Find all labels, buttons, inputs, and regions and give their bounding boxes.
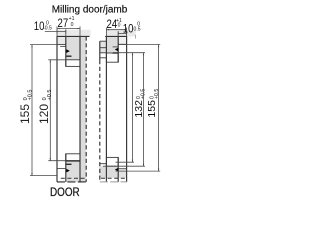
dim 120 left extension bottom [48, 160, 66, 162]
dim 27 line [57, 28, 80, 30]
jamb stop strip fill (top) [100, 41, 107, 53]
door hline at lower left [57, 168, 66, 170]
jamb bottom arrow [115, 168, 119, 172]
dim 132 line [132, 53, 134, 163]
svg-text:0: 0 [136, 96, 142, 99]
door top band (milled zone above section) [57, 30, 91, 37]
dim 120 left arrow top [50, 60, 51, 63]
dim 27 arrow left [57, 28, 60, 29]
jamb lip strip fill [118, 36, 126, 44]
auxiliary dim extension bottom (merges with jamb box bottom edge) [103, 165, 145, 167]
jamb stop hline at bottom [99, 163, 106, 165]
svg-text:DOOR: DOOR [50, 187, 80, 200]
door face hidden line (dashed) [85, 36, 87, 182]
svg-text:120: 120 [37, 104, 51, 124]
auxiliary dim arrow bottom [143, 164, 144, 167]
jamb lip inner line bottom [117, 157, 119, 182]
dim 10 right extension at pocket [117, 31, 119, 36]
dim 27 extension line left [56, 26, 58, 36]
door lip strip fill [57, 36, 66, 44]
svg-text:-0.5: -0.5 [132, 26, 141, 32]
jamb top edge [105, 35, 127, 37]
door hidden bottom edge (dashed) [61, 177, 87, 179]
jamb lip pocket bottom edge [118, 43, 126, 45]
door thick short line at bottom pocket [66, 163, 72, 165]
dim 120 left extension top [48, 59, 66, 61]
door top edge [57, 35, 90, 37]
dim 24 extension line right [126, 28, 128, 37]
jamb stop face hidden (dashed) [99, 60, 101, 182]
door left edge [56, 36, 58, 182]
dim 155 left text (rotated) [18, 90, 34, 124]
dim 27 arrow right [77, 28, 80, 29]
door bottom arrow [66, 169, 70, 173]
dim 10 right text [123, 23, 134, 36]
dim 120 left text (rotated) [37, 90, 53, 124]
jamb short line above top arrow [113, 46, 119, 48]
dim 120 left arrow bottom [50, 158, 51, 161]
dim 10 tick right [65, 30, 67, 34]
dim 10 tolerance [46, 20, 49, 26]
jamb stop hline 4 [100, 57, 107, 59]
svg-text:0: 0 [118, 22, 121, 28]
jamb right edge [126, 36, 128, 182]
svg-text:0: 0 [149, 96, 155, 99]
dim 155 right extension bottom [116, 170, 161, 172]
dim 10 extension at pocket [65, 29, 67, 36]
svg-text:155: 155 [146, 100, 158, 118]
door right strip fill [80, 36, 86, 182]
auxiliary dim line (middle right) [143, 53, 145, 167]
dim 24 extension line left [105, 28, 107, 37]
door short line above top arrow [60, 45, 66, 47]
jamb stop hline 1 [100, 40, 107, 42]
dim 27 tolerance [69, 16, 75, 22]
dim 27 text [58, 17, 69, 30]
dim 155 left extension bottom [30, 175, 57, 177]
door top milled pocket fill [66, 36, 80, 59]
svg-text:155: 155 [18, 104, 32, 124]
dim 10 tick left [56, 30, 58, 34]
door bottom break line (long dash) [57, 181, 87, 183]
jamb top milled pocket fill [106, 36, 118, 53]
svg-text:132: 132 [133, 100, 145, 118]
svg-text:-0.5: -0.5 [43, 25, 52, 31]
auxiliary dim arrow top [143, 53, 144, 56]
svg-text:0: 0 [71, 22, 74, 28]
door bottom box thick bottom edge [66, 160, 80, 162]
svg-text:27: 27 [58, 17, 69, 30]
door thick short line below top arrow [66, 55, 72, 57]
jamb bottom milled pocket fill [99, 166, 118, 178]
dim 155 left arrow top [31, 45, 32, 48]
jamb bottom break line (long dash) [100, 181, 127, 183]
dim 155 right extension top [118, 44, 160, 46]
jamb hidden bottom edge (dashed) [101, 177, 127, 179]
door top inner box (white) [66, 60, 80, 67]
dim 10 right tick right [126, 31, 128, 35]
dim 10 right tick left [117, 31, 119, 35]
dim 24 line [106, 29, 126, 31]
jamb bottom right light fill [118, 169, 126, 178]
door top arrow [66, 49, 70, 53]
dim 132 extension bottom [116, 161, 135, 163]
dim 155 right line [158, 45, 160, 172]
svg-text:Milling door/jamb: Milling door/jamb [52, 4, 128, 15]
dim 10 right line (leader extends right) [118, 32, 127, 34]
door lip inner line bottom [65, 154, 67, 182]
dim 10 right tolerance [137, 21, 140, 27]
door bottom inner box (white) [66, 154, 80, 161]
jamb pocket left line [105, 36, 107, 182]
dim 155 left extension top [30, 44, 57, 46]
dim 10 text [34, 20, 45, 33]
jamb top band right edge tick [135, 35, 137, 39]
dim 132 extension top [118, 52, 145, 54]
dim 155 left arrow bottom [31, 173, 32, 176]
dim 120 left line [49, 60, 51, 161]
dim 132 text (rotated) [133, 89, 147, 118]
dim 24 tolerance [116, 18, 122, 24]
jamb top band (milled zone above section) [106, 30, 135, 36]
jamb thick box top segment [113, 52, 119, 54]
jamb lip inner line top [117, 36, 119, 62]
door lip pocket bottom edge [57, 44, 66, 46]
dim 24 arrow left [106, 29, 109, 30]
dim 24 text [107, 18, 118, 31]
dim 132 arrow top [132, 53, 133, 56]
jamb bottom inner box (white) [106, 157, 118, 166]
dim 155 right arrow bottom [158, 169, 159, 172]
jamb stop hline 2 [100, 47, 107, 49]
dim 155 right text (rotated) [146, 89, 160, 118]
dim 27 extension line right [79, 26, 81, 36]
dim 155 left line [31, 45, 33, 176]
jamb hline at lower right [118, 168, 126, 170]
dim 10 line (leader extends left) [45, 31, 66, 33]
jamb stop hline 3 [100, 52, 107, 54]
jamb stop face solid top [99, 41, 101, 60]
svg-text:0: 0 [23, 97, 29, 100]
svg-text:0: 0 [42, 97, 48, 100]
jamb top inner box (white) [106, 53, 118, 62]
jamb top arrow [115, 48, 119, 52]
door lip inner line top [65, 36, 67, 66]
dim 24 arrow right [124, 29, 127, 30]
dim 155 right arrow top [158, 45, 159, 48]
door pocket right line [79, 36, 81, 182]
door bottom milled pocket fill [66, 161, 86, 182]
DOOR label [50, 187, 80, 200]
dim 132 arrow bottom [132, 160, 133, 163]
